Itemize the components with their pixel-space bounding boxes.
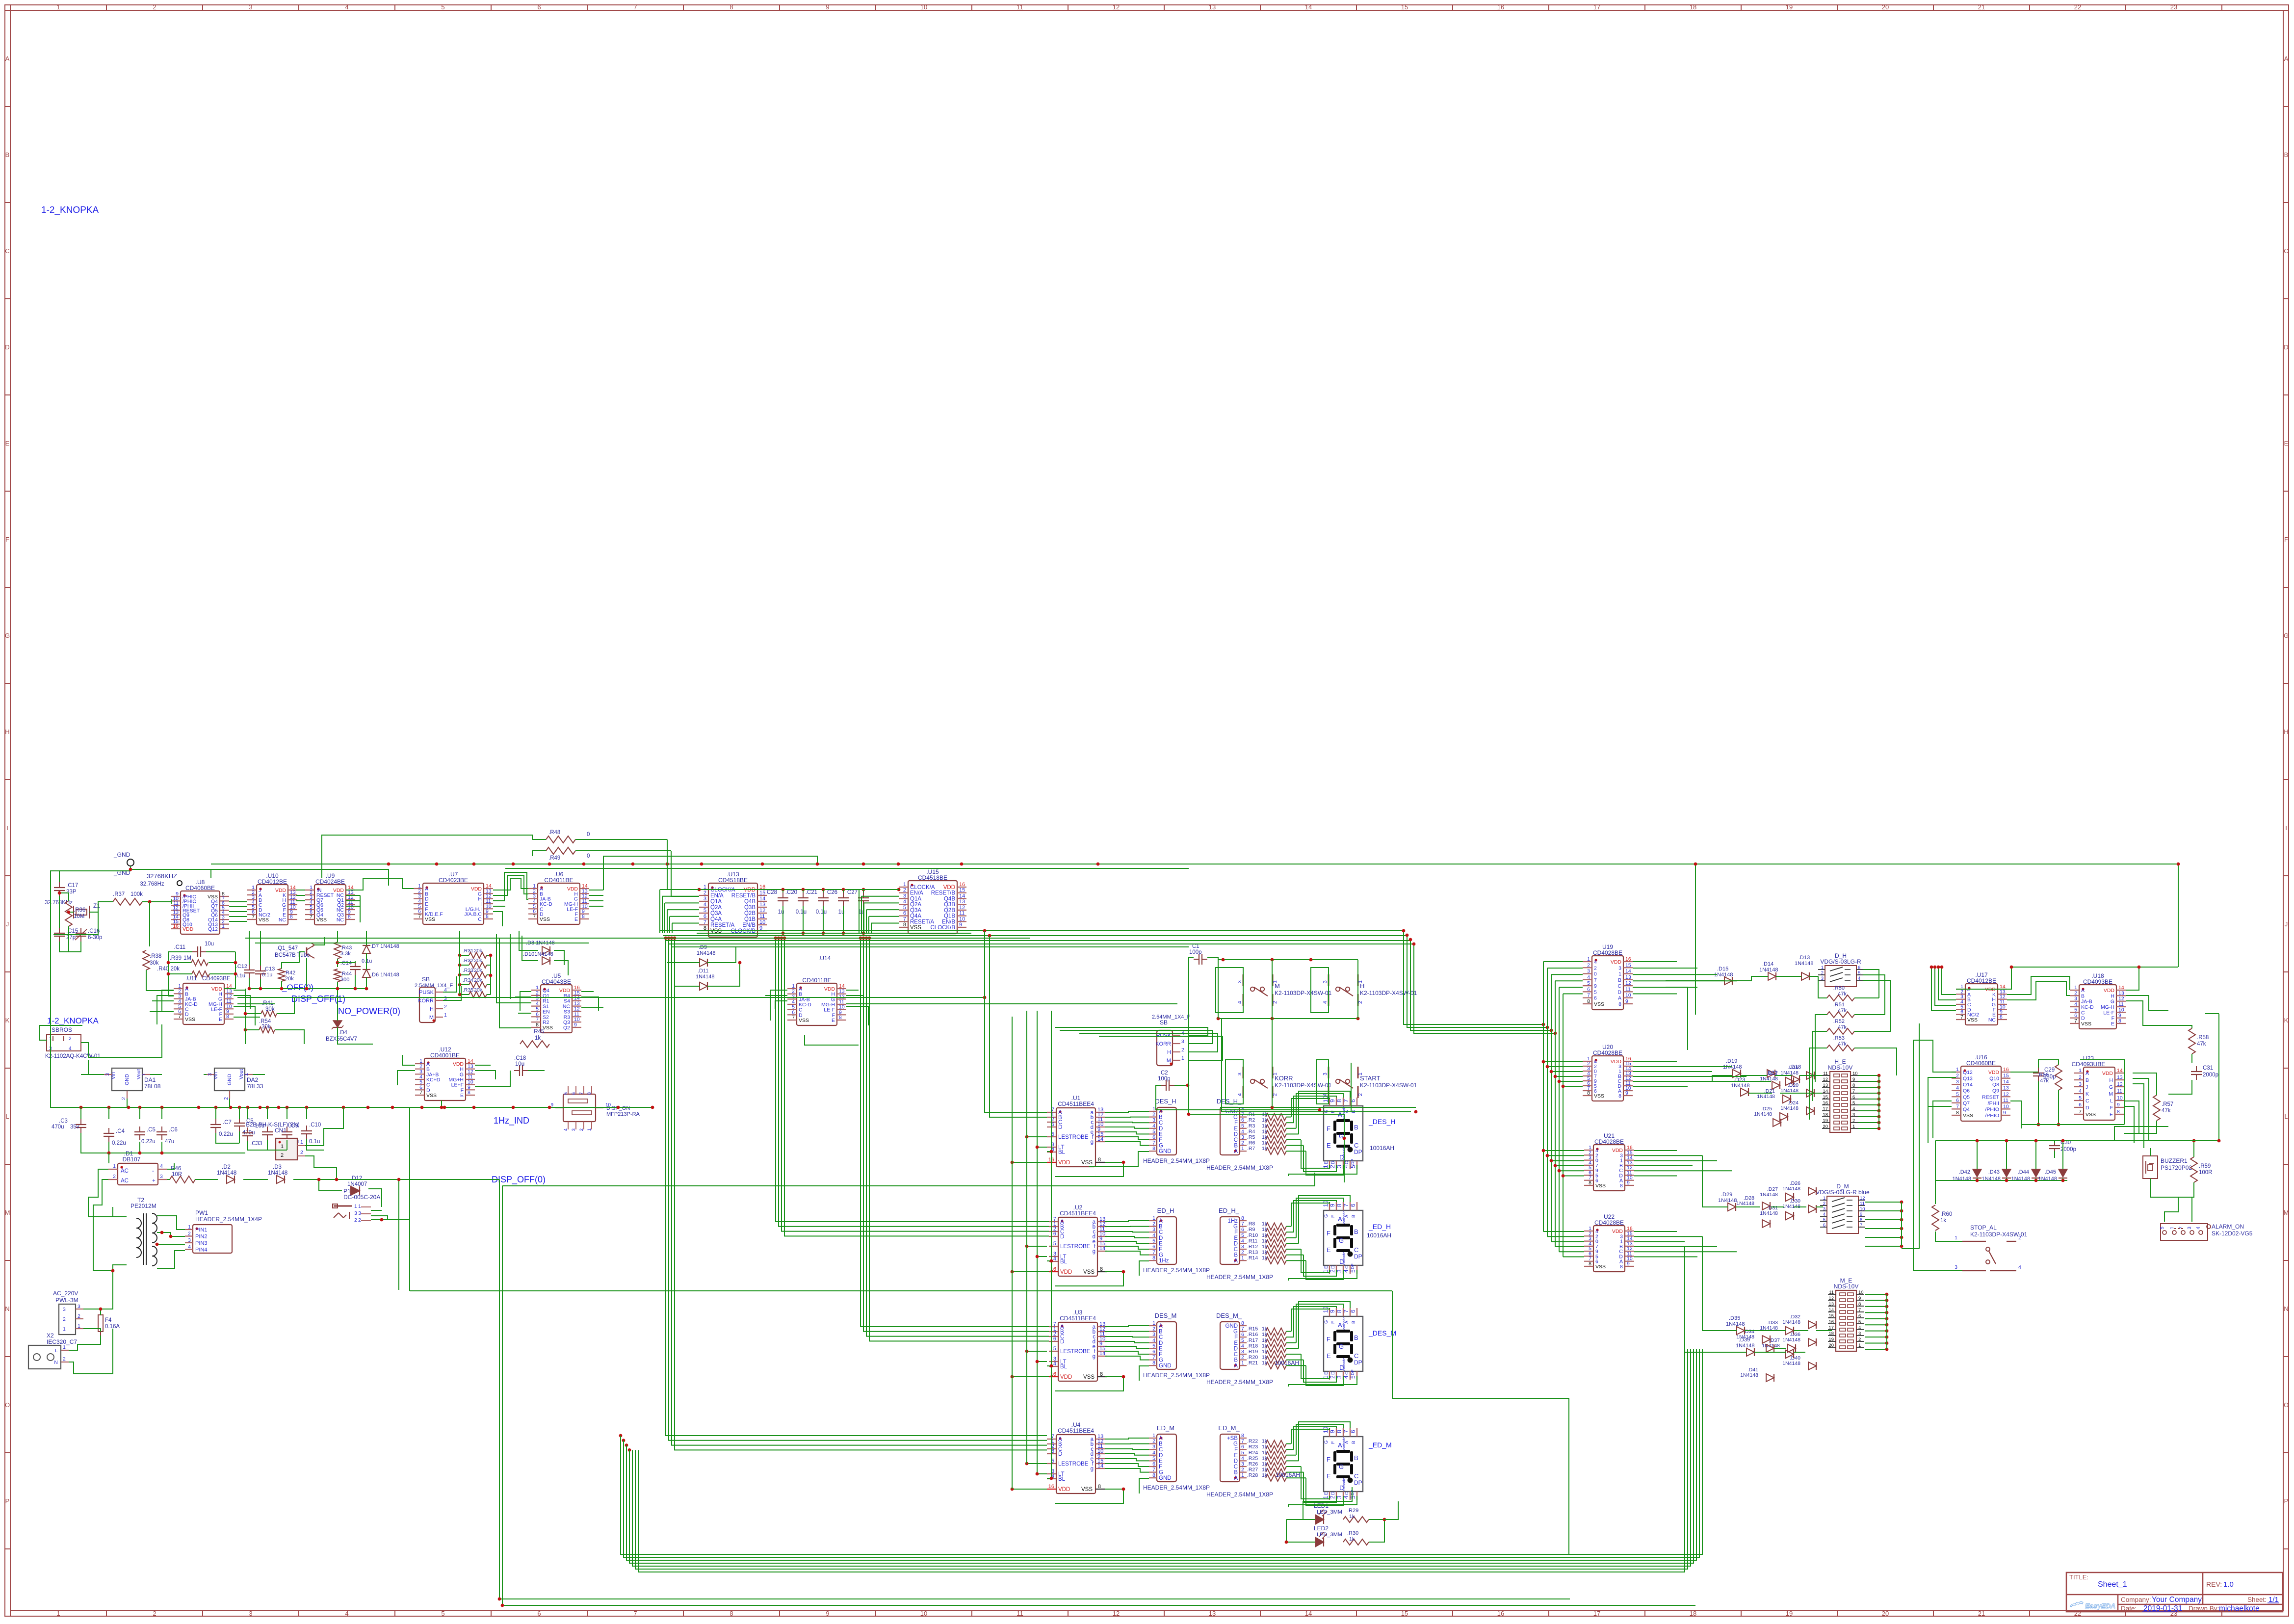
svg-text:8: 8 (226, 1014, 229, 1020)
svg-text:7: 7 (1241, 1439, 1244, 1444)
svg-text:8: 8 (1336, 1430, 1343, 1433)
svg-text:8: 8 (587, 1092, 592, 1095)
svg-text:1N4148: 1N4148 (1757, 1094, 1775, 1100)
svg-text:9: 9 (2117, 1102, 2120, 1108)
svg-text:.R53: .R53 (1833, 1035, 1845, 1041)
svg-text:REV:: REV: (2206, 1580, 2222, 1588)
svg-text:12: 12 (1113, 3, 1120, 11)
svg-text:10: 10 (1322, 1200, 1329, 1207)
svg-text:5: 5 (1350, 1375, 1356, 1379)
svg-text:6: 6 (571, 1092, 576, 1095)
svg-text:D: D (1234, 1458, 1238, 1464)
svg-text:2: 2 (704, 890, 706, 896)
svg-text:CD4518BE: CD4518BE (718, 877, 748, 884)
svg-text:EN/B: EN/B (742, 922, 756, 928)
svg-text:1: 1 (2074, 985, 2077, 991)
svg-text:8: 8 (1618, 1093, 1621, 1099)
svg-text:2: 2 (1241, 1355, 1244, 1361)
svg-text:Your Company: Your Company (2152, 1596, 2202, 1604)
svg-text:9: 9 (1860, 1212, 1862, 1217)
svg-text:KORR: KORR (1155, 1041, 1171, 1047)
svg-text:E: E (1327, 1142, 1331, 1149)
svg-text:1-2_KNOPKA: 1-2_KNOPKA (41, 205, 99, 215)
svg-text:7: 7 (1858, 1308, 1861, 1313)
svg-text:.D13: .D13 (1799, 955, 1810, 961)
svg-text:MG-H: MG-H (2101, 1004, 2114, 1010)
svg-text:17: 17 (1593, 1610, 1600, 1617)
svg-text:_ED_M: _ED_M (1368, 1441, 1392, 1449)
svg-text:C: C (1344, 1371, 1350, 1375)
svg-text:.R14: .R14 (1247, 1255, 1258, 1261)
svg-text:7: 7 (1956, 1103, 1959, 1109)
svg-text:16: 16 (1625, 956, 1631, 962)
svg-text:21: 21 (1978, 1610, 1985, 1617)
svg-text:15: 15 (759, 890, 765, 896)
svg-text:0.1u: 0.1u (309, 1139, 320, 1145)
svg-text:.R37: .R37 (113, 891, 125, 897)
svg-text:8: 8 (348, 914, 351, 920)
svg-text:.D45: .D45 (2045, 1169, 2056, 1175)
svg-text:13: 13 (2117, 1074, 2123, 1080)
svg-text:G: G (1159, 1470, 1163, 1476)
svg-text:2: 2 (113, 1174, 116, 1179)
svg-text:.R24: .R24 (1247, 1450, 1258, 1456)
svg-text:6: 6 (2074, 1013, 2077, 1019)
svg-text:3: 3 (1336, 1269, 1343, 1273)
svg-text:5: 5 (1852, 1100, 1855, 1106)
svg-text:3: 3 (704, 896, 706, 902)
svg-text:5: 5 (1587, 980, 1590, 986)
svg-text:2: 2 (1956, 1073, 1959, 1079)
svg-text:16: 16 (173, 923, 179, 929)
svg-text:D: D (2085, 1105, 2089, 1111)
svg-text:_GND: _GND (113, 851, 130, 858)
svg-text:1k: 1k (1262, 1227, 1268, 1232)
svg-text:1: 1 (587, 1128, 592, 1131)
svg-text:G: G (2111, 999, 2114, 1005)
svg-text:6: 6 (1823, 1223, 1825, 1228)
svg-text:5: 5 (1241, 1232, 1244, 1238)
svg-text:47k: 47k (1838, 1041, 1847, 1047)
svg-text:.R58: .R58 (2197, 1035, 2209, 1041)
svg-text:_ED_H: _ED_H (1368, 1223, 1391, 1231)
svg-text:1k: 1k (1262, 1221, 1268, 1227)
svg-text:.R32: .R32 (463, 958, 473, 964)
svg-text:2: 2 (121, 1097, 127, 1100)
svg-text:LED_3MM: LED_3MM (1317, 1509, 1342, 1515)
svg-text:13: 13 (1625, 974, 1631, 980)
svg-text:0.22u: 0.22u (219, 1131, 233, 1137)
svg-text:CD4012BE: CD4012BE (258, 878, 287, 885)
svg-text:1k: 1k (1262, 1461, 1268, 1467)
svg-text:.D39: .D39 (1739, 1337, 1750, 1343)
svg-text:2: 2 (1821, 970, 1824, 976)
svg-text:6: 6 (1350, 1204, 1356, 1207)
svg-text:D: D (1058, 1125, 1062, 1130)
svg-text:5: 5 (1241, 1450, 1244, 1456)
svg-text:GND: GND (1225, 1323, 1238, 1329)
svg-text:A: A (2284, 55, 2289, 62)
svg-text:2: 2 (188, 1231, 191, 1237)
svg-text:11: 11 (2003, 1098, 2008, 1103)
svg-text:K2-1102AQ-K4CW-01: K2-1102AQ-K4CW-01 (45, 1053, 101, 1059)
svg-text:CD4060BE: CD4060BE (185, 885, 215, 891)
svg-text:.R36: .R36 (74, 907, 85, 913)
svg-text:47k: 47k (2040, 1078, 2049, 1084)
svg-text:2: 2 (1181, 1047, 1184, 1053)
svg-text:SK-12D02-VG5: SK-12D02-VG5 (2212, 1230, 2253, 1237)
svg-text:H: H (1360, 982, 1364, 990)
svg-text:1: 1 (1322, 1269, 1329, 1273)
svg-text:3: 3 (1152, 1332, 1155, 1337)
svg-text:1: 1 (1152, 1433, 1155, 1439)
svg-text:4: 4 (563, 1128, 569, 1131)
svg-text:K2-1103DP-X4SW-01: K2-1103DP-X4SW-01 (1360, 1082, 1417, 1089)
svg-text:G: G (1339, 1463, 1344, 1470)
svg-text:10: 10 (1322, 1306, 1329, 1313)
svg-text:BL: BL (1060, 1364, 1068, 1370)
svg-text:5: 5 (1152, 1238, 1155, 1244)
svg-text:9: 9 (574, 1022, 577, 1028)
svg-text:F: F (1327, 1230, 1330, 1237)
svg-text:PWL-3M: PWL-3M (55, 1297, 78, 1304)
svg-text:14: 14 (1828, 1308, 1834, 1313)
svg-text:10: 10 (1860, 1206, 1865, 1212)
svg-text:C26: C26 (827, 890, 837, 895)
svg-text:DB107: DB107 (123, 1156, 141, 1163)
svg-text:.R28: .R28 (1247, 1472, 1258, 1478)
svg-text:AC: AC (121, 1168, 129, 1174)
svg-text:VSS: VSS (1963, 1113, 1973, 1119)
svg-text:0.1u: 0.1u (796, 909, 807, 915)
svg-text:2: 2 (579, 1128, 584, 1131)
svg-text:1N4148: 1N4148 (697, 950, 716, 956)
svg-text:1k: 1k (1262, 1349, 1268, 1355)
svg-text:33P: 33P (66, 889, 77, 895)
svg-text:7: 7 (418, 914, 421, 919)
svg-text:20k: 20k (474, 987, 483, 993)
svg-text:ALARM_ON: ALARM_ON (2212, 1223, 2244, 1230)
svg-text:2.54MM_1X4_F: 2.54MM_1X4_F (1152, 1014, 1191, 1020)
svg-text:32.768Hz: 32.768Hz (140, 881, 164, 887)
svg-text:9: 9 (1329, 1310, 1336, 1313)
svg-text:13: 13 (1823, 1083, 1828, 1088)
svg-text:12: 12 (1860, 1196, 1865, 1201)
svg-text:B: B (2284, 151, 2289, 158)
svg-text:4: 4 (345, 1610, 348, 1617)
svg-text:1k: 1k (1262, 1360, 1268, 1366)
svg-text:1: 1 (1322, 1375, 1329, 1379)
svg-text:2: 2 (1241, 1140, 1244, 1146)
svg-text:E: E (1324, 1266, 1329, 1269)
svg-text:A: A (1234, 1475, 1238, 1481)
svg-text:2: 2 (1241, 1467, 1244, 1473)
svg-text:K2-1103DP-X4SW-01: K2-1103DP-X4SW-01 (1360, 990, 1417, 996)
svg-text:E: E (1159, 1346, 1163, 1352)
svg-text:.R8: .R8 (1247, 1221, 1255, 1227)
svg-text:G: G (1324, 1441, 1329, 1444)
svg-text:Vin: Vin (213, 1072, 219, 1079)
svg-text:1: 1 (56, 1610, 60, 1617)
svg-text:L: L (55, 1348, 58, 1354)
svg-text:.R19: .R19 (1247, 1349, 1258, 1355)
svg-text:B: B (1351, 1441, 1356, 1444)
svg-text:E: E (1159, 1458, 1163, 1464)
svg-text:1k: 1k (1349, 1536, 1355, 1542)
svg-text:CD4093BE: CD4093BE (202, 976, 231, 982)
svg-text:6: 6 (1241, 1444, 1244, 1450)
svg-text:5: 5 (1858, 970, 1860, 976)
svg-text:47k: 47k (1838, 1024, 1847, 1030)
svg-text:2: 2 (300, 1150, 303, 1155)
svg-text:B: B (2085, 1077, 2089, 1083)
svg-text:.R48: .R48 (548, 830, 560, 836)
svg-text:16: 16 (1823, 1100, 1828, 1106)
svg-text:1N4148: 1N4148 (1782, 1319, 1800, 1325)
svg-text:VDD: VDD (943, 885, 955, 891)
svg-text:J: J (2285, 920, 2288, 928)
svg-text:4: 4 (1587, 974, 1590, 980)
svg-text:Q5: Q5 (1963, 1094, 1970, 1100)
svg-text:DES_M: DES_M (1155, 1312, 1177, 1319)
svg-text:10: 10 (1858, 1290, 1864, 1295)
svg-text:E: E (460, 1093, 464, 1099)
svg-text:VDG/S-03LG-R: VDG/S-03LG-R (1820, 958, 1861, 965)
svg-text:8: 8 (1956, 1110, 1959, 1116)
svg-text:8: 8 (486, 914, 489, 919)
svg-text:2: 2 (153, 1610, 156, 1617)
svg-text:.R12: .R12 (1247, 1244, 1258, 1250)
svg-text:5: 5 (441, 3, 444, 11)
svg-text:8: 8 (1336, 1099, 1343, 1102)
svg-text:.D18: .D18 (1790, 1064, 1801, 1070)
svg-text:EN/A: EN/A (910, 891, 923, 896)
svg-text:Q3B: Q3B (944, 902, 955, 908)
svg-text:VSS: VSS (1081, 1487, 1093, 1493)
svg-text:D: D (1159, 1340, 1163, 1346)
svg-text:F: F (1234, 1447, 1238, 1453)
svg-text:7: 7 (792, 1015, 795, 1021)
svg-text:.D7 1N4148: .D7 1N4148 (370, 943, 399, 949)
svg-text:Q4: Q4 (1963, 1106, 1970, 1112)
svg-text:2: 2 (1587, 962, 1590, 968)
svg-text:X2: X2 (47, 1332, 54, 1339)
svg-text:CD4518BE: CD4518BE (918, 874, 947, 881)
svg-text:6: 6 (1152, 1461, 1155, 1467)
svg-text:14: 14 (1305, 1610, 1312, 1617)
svg-text:10: 10 (1852, 1071, 1858, 1076)
svg-text:17: 17 (1823, 1106, 1828, 1112)
svg-text:4: 4 (1241, 1343, 1244, 1349)
svg-text:g: g (1093, 1354, 1095, 1360)
svg-text:1k: 1k (1262, 1140, 1268, 1146)
svg-text:D: D (1060, 1234, 1064, 1240)
svg-text:E: E (2284, 440, 2289, 447)
svg-text:2: 2 (1152, 1112, 1155, 1118)
svg-text:1k: 1k (1262, 1123, 1268, 1129)
svg-text:5: 5 (1594, 989, 1597, 995)
svg-text:DP: DP (1350, 1369, 1355, 1375)
svg-text:J: J (6, 920, 9, 928)
svg-text:3: 3 (1241, 1134, 1244, 1140)
svg-text:F: F (1159, 1464, 1162, 1470)
svg-text:12: 12 (1823, 1077, 1828, 1082)
svg-text:CD4093BE: CD4093BE (2083, 978, 2112, 985)
svg-text:/PHIO: /PHIO (1985, 1113, 1999, 1119)
svg-text:BL: BL (1058, 1150, 1066, 1155)
svg-text:7: 7 (1152, 1250, 1155, 1256)
svg-text:.R16: .R16 (1247, 1332, 1258, 1337)
svg-text:.C20: .C20 (785, 890, 797, 895)
svg-text:1: 1 (1152, 1215, 1155, 1221)
svg-text:NC: NC (279, 917, 287, 923)
svg-text:1k: 1k (1940, 1218, 1946, 1224)
svg-text:CD4511BEE4: CD4511BEE4 (1058, 1427, 1094, 1434)
svg-text:1k: 1k (1262, 1117, 1268, 1123)
svg-text:1Hz: 1Hz (1228, 1218, 1238, 1224)
svg-text:C: C (1354, 1142, 1358, 1149)
svg-text:.R11: .R11 (1247, 1238, 1258, 1244)
svg-text:4: 4 (1343, 1269, 1350, 1273)
svg-text:Z1: Z1 (93, 902, 100, 909)
svg-text:BUZZER1: BUZZER1 (2161, 1157, 2188, 1164)
svg-text:A: A (1159, 1218, 1163, 1224)
svg-text:TITLE:: TITLE: (2069, 1573, 2088, 1581)
svg-text:CD4511BEE4: CD4511BEE4 (1060, 1210, 1096, 1217)
svg-text:7: 7 (633, 3, 637, 11)
svg-text:IEC320_C7: IEC320_C7 (47, 1338, 77, 1345)
svg-text:1k: 1k (1262, 1244, 1268, 1250)
svg-text:8: 8 (1620, 1183, 1623, 1189)
svg-text:CD4001BE: CD4001BE (430, 1052, 460, 1059)
svg-text:32768KHZ: 32768KHZ (147, 872, 177, 880)
svg-text:.R30: .R30 (1347, 1530, 1358, 1536)
svg-text:D: D (1330, 1492, 1336, 1495)
svg-text:.R21: .R21 (1247, 1360, 1258, 1366)
svg-text:B: B (1351, 1321, 1356, 1324)
svg-text:4: 4 (1152, 1337, 1155, 1343)
svg-text:1k: 1k (1262, 1238, 1268, 1244)
svg-text:16: 16 (1048, 1484, 1054, 1490)
svg-text:3: 3 (1152, 1117, 1155, 1123)
svg-text:VDD: VDD (1060, 1374, 1072, 1380)
svg-text:Q4A: Q4A (710, 917, 722, 922)
svg-text:1N4148: 1N4148 (1740, 1372, 1758, 1378)
svg-text:0: 0 (587, 832, 590, 838)
svg-text:K: K (5, 1017, 10, 1024)
svg-text:10u: 10u (205, 941, 214, 947)
svg-text:1: 1 (1852, 1124, 1855, 1129)
svg-text:2: 2 (223, 1097, 229, 1100)
svg-text:8: 8 (2118, 1018, 2121, 1024)
svg-text:1N4148: 1N4148 (1760, 1192, 1778, 1198)
svg-text:RESET/B: RESET/B (731, 893, 756, 899)
svg-text:5: 5 (1858, 1319, 1861, 1325)
svg-text:0.22u: 0.22u (112, 1140, 126, 1146)
svg-text:1N4148: 1N4148 (1759, 967, 1778, 973)
svg-text:8: 8 (290, 914, 293, 920)
svg-text:DC-005C-20A: DC-005C-20A (343, 1194, 380, 1201)
svg-text:8: 8 (1241, 1433, 1244, 1439)
svg-text:9: 9 (1329, 1430, 1336, 1433)
svg-text:18: 18 (1823, 1112, 1828, 1118)
svg-text:5: 5 (2079, 1095, 2082, 1101)
svg-text:A: A (1344, 1214, 1350, 1218)
svg-text:VSS: VSS (1594, 1093, 1604, 1099)
svg-text:C: C (1234, 1247, 1238, 1253)
svg-text:BZX55C4V7: BZX55C4V7 (326, 1036, 357, 1042)
svg-text:6: 6 (2079, 1102, 2082, 1108)
svg-text:3: 3 (571, 1128, 576, 1131)
svg-text:1k: 1k (1262, 1472, 1268, 1478)
svg-text:100p: 100p (1189, 949, 1202, 955)
svg-text:.R13: .R13 (1247, 1250, 1258, 1256)
svg-text:8: 8 (1620, 1264, 1623, 1270)
svg-text:30k: 30k (265, 1006, 275, 1012)
svg-text:9: 9 (1627, 1261, 1630, 1267)
svg-text:3: 3 (1955, 1264, 1957, 1270)
svg-text:7: 7 (310, 914, 313, 920)
svg-text:ED_H_: ED_H_ (1219, 1207, 1240, 1214)
svg-text:C: C (5, 247, 9, 255)
svg-text:.R59: .R59 (2199, 1163, 2211, 1169)
svg-text:19: 19 (1786, 1610, 1793, 1617)
svg-text:.D35: .D35 (1729, 1315, 1740, 1321)
svg-text:.R45: .R45 (532, 1029, 544, 1035)
svg-text:CD4028BE: CD4028BE (1594, 1138, 1624, 1145)
svg-text:C: C (1354, 1472, 1358, 1480)
svg-text:8: 8 (1336, 1204, 1343, 1207)
svg-text:VSS: VSS (1595, 1264, 1606, 1270)
svg-text:.C11: .C11 (174, 944, 185, 950)
svg-text:6: 6 (1152, 1134, 1155, 1140)
svg-text:J: J (2085, 1084, 2088, 1090)
svg-text:HEADER_2.54MM_1X8P: HEADER_2.54MM_1X8P (1206, 1491, 1273, 1498)
svg-text:1: 1 (63, 1344, 66, 1350)
svg-text:13: 13 (959, 899, 965, 905)
svg-text:19: 19 (1828, 1337, 1834, 1342)
svg-text:4: 4 (69, 1046, 72, 1051)
svg-text:.R42: .R42 (284, 970, 295, 976)
svg-text:C: C (1159, 1335, 1163, 1340)
svg-text:G: G (2284, 632, 2289, 639)
svg-text:E: E (1159, 1241, 1163, 1247)
svg-text:8: 8 (1587, 998, 1590, 1004)
svg-text:1k: 1k (1262, 1326, 1268, 1332)
svg-text:.R43: .R43 (340, 945, 352, 951)
svg-text:3: 3 (160, 1174, 163, 1179)
svg-text:1: 1 (1618, 971, 1621, 977)
svg-text:4: 4 (1152, 1232, 1155, 1238)
svg-text:D: D (5, 343, 9, 351)
svg-text:Q1B: Q1B (744, 917, 756, 922)
svg-text:G: G (1324, 1320, 1329, 1324)
svg-text:20k: 20k (474, 968, 483, 973)
svg-text:12: 12 (959, 905, 965, 911)
svg-text:.C4: .C4 (116, 1128, 125, 1134)
svg-text:E: E (1234, 1126, 1238, 1132)
svg-text:3: 3 (2187, 1227, 2192, 1230)
svg-text:2: 2 (1152, 1326, 1155, 1332)
svg-text:D: D (1058, 1451, 1062, 1457)
svg-text:Vout: Vout (238, 1069, 244, 1079)
svg-text:Q3A: Q3A (710, 911, 722, 917)
svg-text:Q3A: Q3A (910, 908, 921, 914)
svg-text:8: 8 (730, 3, 733, 11)
svg-text:GND: GND (227, 1074, 233, 1085)
svg-text:8: 8 (1100, 1371, 1103, 1377)
svg-text:.D101N4148: .D101N4148 (523, 951, 553, 957)
